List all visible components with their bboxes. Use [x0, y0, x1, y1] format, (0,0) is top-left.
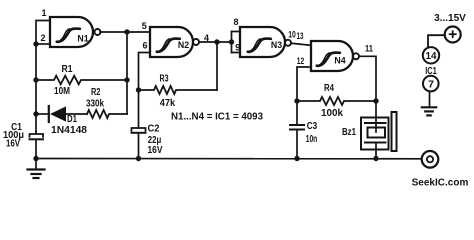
node: junction dot R1 right: [124, 77, 129, 82]
ground symbol (top right, under pin 7): [422, 107, 436, 115]
svg-text:11: 11: [365, 44, 373, 54]
svg-text:N3: N3: [271, 40, 282, 50]
svg-text:N1...N4 = IC1 = 4093: N1...N4 = IC1 = 4093: [171, 112, 263, 123]
node: junction dot rail/C3: [294, 156, 299, 161]
svg-text:SeekIC.com: SeekIC.com: [412, 178, 469, 189]
gate N4 (Schmitt NAND): [311, 41, 359, 71]
wire: N3 output to N4 pin 13: [291, 43, 311, 45]
svg-text:N1: N1: [77, 33, 88, 43]
wire: N3 input tie vertical and stubs: [232, 32, 241, 53]
svg-text:R2: R2: [91, 86, 101, 98]
svg-text:5: 5: [142, 21, 147, 31]
svg-text:6: 6: [142, 41, 147, 51]
svg-text:47k: 47k: [160, 97, 176, 109]
wire: N1 output to N2 pin 5: [100, 31, 150, 33]
node: junction dot N3 input tie: [229, 39, 234, 44]
svg-text:100k: 100k: [321, 107, 343, 119]
wire: N2 pin 6 elbow down to C2/R3 node: [139, 53, 151, 127]
svg-text:13: 13: [297, 31, 304, 41]
wire: N1 input column (left vertical rail x=36): [36, 21, 50, 132]
svg-text:2: 2: [40, 33, 45, 43]
op gate N1 (Schmitt NAND): [50, 17, 101, 47]
capacitor C2 (electrolytic): [132, 128, 146, 159]
svg-text:C2: C2: [148, 122, 160, 134]
diode D1 (1N4148): [36, 106, 87, 122]
ground symbol (left, under C1): [28, 159, 45, 179]
node: junction dot rail/C2: [136, 156, 141, 161]
node: junction dot R1 left: [33, 77, 38, 82]
node: junction dot N2 output: [214, 39, 219, 44]
gate N2 (Schmitt NAND): [150, 27, 199, 57]
svg-text:12: 12: [297, 56, 304, 66]
svg-text:R1: R1: [62, 63, 73, 75]
node: junction dot rail/C1: [33, 156, 38, 161]
pin circle 14 (IC1 supply): [423, 47, 439, 63]
wire: R3 right vertical up to N2 output node: [216, 42, 218, 90]
resistor R3: [139, 86, 218, 94]
wire: feedback vertical x=127: [126, 32, 128, 114]
terminal: +supply: [445, 27, 461, 43]
pin circle 7 (IC1 ground): [423, 76, 439, 92]
node: junction dot rail/buzzer: [373, 156, 378, 161]
svg-text:R3: R3: [160, 72, 169, 84]
svg-text:16V: 16V: [148, 144, 163, 156]
wire: N4 pin 12 elbow down to R4/C3 node: [297, 67, 311, 124]
node: junction dot N1 output feedback: [124, 29, 129, 34]
node: junction dot R4 right / buzzer top: [373, 98, 378, 103]
capacitor C3: [290, 125, 304, 159]
node: junction dot pin2/left column: [33, 41, 38, 46]
resistor R4: [297, 97, 376, 105]
resistor R2: [87, 110, 127, 118]
svg-text:Bz1: Bz1: [342, 126, 356, 138]
svg-text:N4: N4: [334, 56, 345, 66]
wire: bottom ground rail: [36, 158, 422, 160]
node: junction dot R3/C2: [136, 87, 141, 92]
svg-text:10n: 10n: [306, 133, 318, 145]
wire: +supply to IC1 pin 14: [428, 35, 445, 47]
svg-text:330k: 330k: [86, 97, 104, 109]
wire: N2 output to N3 inputs: [199, 41, 232, 43]
resistor R1: [36, 76, 127, 85]
buzzer Bz1: [361, 112, 397, 159]
svg-text:8: 8: [233, 17, 238, 27]
svg-text:C3: C3: [307, 120, 318, 132]
wire: IC1 pin 7 to ground: [429, 91, 431, 106]
svg-text:N2: N2: [178, 40, 189, 50]
svg-text:1: 1: [41, 8, 46, 18]
svg-text:10: 10: [288, 30, 296, 40]
svg-text:1N4148: 1N4148: [51, 124, 87, 136]
svg-text:3...15V: 3...15V: [434, 13, 466, 24]
terminal: output (bottom right): [422, 151, 439, 168]
node: junction dot D1 left: [33, 111, 38, 116]
svg-text:14: 14: [426, 50, 437, 62]
svg-text:10M: 10M: [54, 85, 70, 97]
wire: N1 pin 2 stub: [36, 43, 50, 45]
svg-text:16V: 16V: [6, 138, 20, 150]
wire: N4 output down to buzzer: [359, 56, 376, 132]
node: junction dot R4 left: [294, 98, 299, 103]
svg-text:R4: R4: [324, 82, 334, 94]
capacitor C1 (electrolytic): [30, 132, 44, 159]
svg-text:7: 7: [428, 79, 434, 91]
gate N3 (Schmitt NAND): [240, 27, 291, 57]
